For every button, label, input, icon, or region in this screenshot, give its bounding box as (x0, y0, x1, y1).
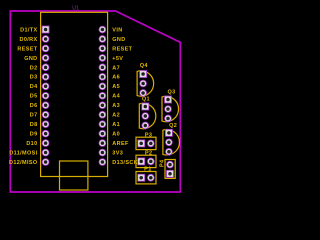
connector P2 body (136, 155, 156, 167)
transistor Q1 body (139, 103, 156, 128)
svg-text:A2: A2 (112, 113, 120, 119)
svg-text:A0: A0 (112, 132, 120, 138)
svg-text:U1: U1 (72, 6, 79, 12)
svg-text:D1/TX: D1/TX (20, 27, 37, 33)
svg-text:P4: P4 (160, 159, 166, 167)
svg-text:P1: P1 (144, 167, 151, 173)
svg-text:D3: D3 (30, 75, 38, 81)
U1 USB connector outline (60, 161, 88, 190)
svg-text:Q2: Q2 (169, 123, 177, 129)
svg-text:A6: A6 (112, 75, 120, 81)
U1 pad 26 (A7) (99, 64, 107, 72)
U1 body outline (41, 12, 108, 176)
Q1 pad 3 (142, 122, 150, 130)
svg-text:3V3: 3V3 (112, 150, 123, 156)
svg-text:A5: A5 (112, 84, 120, 90)
svg-text:VIN: VIN (112, 27, 122, 33)
P2 pad 1 (137, 158, 145, 166)
U1 pad 23 (A4) (99, 92, 107, 100)
connector P3 body (136, 137, 156, 149)
courtyard outline U1 (10, 11, 180, 192)
Q4 pad 3 (139, 89, 147, 97)
connector P1 body (136, 172, 156, 184)
P1 pad 1 (137, 174, 145, 182)
U1 pad 7 (D4) (42, 82, 50, 90)
svg-text:RESET: RESET (17, 46, 37, 52)
U1 pad 6 (D3) (42, 73, 50, 81)
svg-text:D9: D9 (30, 132, 38, 138)
Q2 pad 1 (165, 129, 173, 137)
U1 pad 5 (D2) (42, 64, 50, 72)
U1 pad 8 (D5) (42, 92, 50, 100)
svg-text:RESET: RESET (112, 46, 132, 52)
connector P4 body (165, 160, 175, 179)
transistor Q2 body (163, 130, 180, 155)
U1 pad 13 (D10) (42, 139, 50, 147)
svg-text:+5V: +5V (112, 56, 123, 62)
svg-text:D5: D5 (30, 94, 38, 100)
Q4 pad 2 (139, 80, 147, 88)
Q2 pad 2 (165, 139, 173, 147)
U1 pad 27 (+5V) (99, 54, 107, 62)
U1 pad 18 (AREF) (99, 139, 107, 147)
P2 pad 2 (147, 158, 155, 166)
U1 pad 21 (A2) (99, 111, 107, 119)
svg-text:D12/MISO: D12/MISO (9, 160, 38, 166)
Q3 pad 3 (164, 115, 172, 123)
svg-text:D0/RX: D0/RX (20, 37, 38, 43)
svg-text:Q4: Q4 (140, 63, 149, 69)
U1 pad 20 (A1) (99, 120, 107, 128)
U1 pad 4 (GND) (42, 54, 50, 62)
svg-text:D8: D8 (30, 122, 38, 128)
U1 pad 10 (D7) (42, 111, 50, 119)
P1 pad 2 (147, 174, 155, 182)
U1 pad 12 (D9) (42, 130, 50, 138)
U1 pad 16 (D13/SCK) (99, 158, 107, 166)
svg-text:Q1: Q1 (142, 96, 150, 102)
svg-text:A3: A3 (112, 103, 120, 109)
U1 pad 22 (A3) (99, 101, 107, 109)
svg-text:P2: P2 (145, 150, 152, 156)
U1 pad 14 (D11/MOSI) (42, 149, 50, 157)
U1 pad 25 (A6) (99, 73, 107, 81)
P4 pad 2 (166, 161, 174, 169)
svg-text:D6: D6 (30, 103, 38, 109)
U1 pad 19 (A0) (99, 130, 107, 138)
U1 pad 9 (D6) (42, 101, 50, 109)
svg-text:D2: D2 (30, 65, 38, 71)
U1 pad 28 (RESET) (99, 45, 107, 53)
U1 pad 2 (D0/RX) (42, 35, 50, 43)
Q1 pad 2 (142, 112, 150, 120)
svg-text:A7: A7 (112, 65, 120, 71)
P3 pad 2 (147, 140, 155, 148)
svg-text:D13/SCK: D13/SCK (112, 160, 138, 166)
svg-text:D7: D7 (30, 113, 38, 119)
U1 pad 1 (D1/TX) (42, 26, 50, 34)
U1 pad 3 (RESET) (42, 45, 50, 53)
Q2 pad 3 (165, 148, 173, 156)
svg-text:AREF: AREF (112, 141, 129, 147)
U1 pad 24 (A5) (99, 82, 107, 90)
Q1 pad 1 (141, 103, 149, 111)
svg-text:GND: GND (24, 56, 37, 62)
Q3 pad 1 (164, 96, 172, 104)
U1 pad 29 (GND) (99, 35, 107, 43)
U1 pad 11 (D8) (42, 120, 50, 128)
svg-text:A4: A4 (112, 94, 120, 100)
transistor Q4 body (137, 71, 154, 96)
svg-text:D11/MOSI: D11/MOSI (9, 150, 37, 156)
P3 pad 1 (137, 140, 145, 148)
U1 pad 30 (VIN) (99, 26, 107, 34)
svg-text:D10: D10 (26, 141, 37, 147)
P4 pad 1 (166, 170, 174, 178)
svg-text:P3: P3 (145, 132, 152, 138)
transistor Q3 body (162, 96, 179, 121)
Q4 pad 1 (139, 70, 147, 78)
svg-text:D4: D4 (30, 84, 38, 90)
U1 pad 15 (D12/MISO) (42, 158, 50, 166)
U1 pad 17 (3V3) (99, 149, 107, 157)
Q3 pad 2 (164, 105, 172, 113)
svg-text:A1: A1 (112, 122, 120, 128)
svg-text:GND: GND (112, 37, 125, 43)
svg-text:Q3: Q3 (167, 89, 175, 95)
